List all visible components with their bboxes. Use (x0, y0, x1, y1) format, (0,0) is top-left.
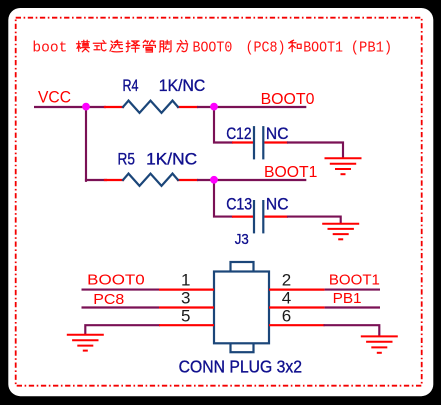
ground (C12) (325, 158, 362, 174)
svg-text:NC: NC (266, 124, 289, 143)
net label BOOT0 (261, 91, 315, 108)
pin number 4 (282, 288, 291, 307)
svg-text:BOOT0: BOOT0 (193, 41, 233, 57)
value NC (C13) (266, 195, 289, 214)
label R5 (118, 149, 135, 168)
resistor R5 (105, 174, 197, 186)
capacitor C13 (232, 200, 288, 233)
net label BOOT1 (connector) (329, 272, 380, 289)
title text: boot 模式选择管脚为BOOT0 (PC8)和BOOT1 (PB1) (32, 41, 392, 57)
label CONN PLUG 3x2 (179, 356, 302, 376)
net label PB1 (333, 290, 362, 307)
ground (C13) (322, 224, 359, 240)
wire junction down to R5 row (85, 107, 87, 181)
connector J3 body (214, 262, 269, 352)
svg-text:NC: NC (266, 195, 289, 214)
wire pin 2 to BOOT1 (325, 289, 380, 291)
wire pin 5 to ground (85, 325, 159, 334)
pin number 2 (282, 271, 291, 290)
value NC (C12) (266, 124, 289, 143)
ground (pin 5) (67, 335, 104, 351)
pin 3 (159, 306, 214, 308)
label C12 (226, 124, 251, 143)
junction node BOOT1 (210, 176, 218, 184)
label R4 (123, 76, 139, 95)
pin 4 (269, 306, 325, 308)
wire VCC to R4 (34, 106, 106, 108)
value 1K/NC (R4) (159, 76, 206, 95)
svg-text:BOOT1: BOOT1 (303, 41, 343, 57)
wire C12 to ground (288, 143, 343, 158)
svg-text:1K/NC: 1K/NC (159, 76, 206, 95)
wire C13 to ground (288, 217, 341, 223)
wire pin 4 to PB1 (325, 306, 380, 308)
pin 5 (159, 324, 214, 326)
svg-text:BOOT0: BOOT0 (87, 271, 145, 288)
svg-text:VCC: VCC (38, 89, 71, 107)
svg-text:1K/NC: 1K/NC (146, 149, 197, 168)
svg-text:boot: boot (32, 41, 67, 57)
junction node VCC/R5 tap (82, 103, 90, 111)
label C13 (226, 195, 252, 214)
capacitor C12 (232, 126, 288, 159)
power port VCC (38, 89, 71, 107)
svg-text:PB1: PB1 (333, 290, 362, 307)
pin number 1 (181, 271, 190, 290)
wire BOOT0 node down to C12 (214, 107, 232, 143)
svg-text:C13: C13 (226, 195, 252, 214)
svg-text:4: 4 (282, 288, 291, 307)
wire PC8 to pin 3 (82, 306, 160, 308)
wire R5 row left (86, 179, 106, 181)
svg-text:1: 1 (181, 271, 190, 290)
pin 1 (159, 289, 214, 291)
title CJK glyphs 模式选择管脚为 (77, 40, 302, 52)
pin 6 (269, 324, 325, 326)
pin number 3 (181, 288, 190, 307)
pin number 5 (181, 306, 190, 325)
svg-text:3: 3 (181, 288, 190, 307)
junction node BOOT0 (210, 103, 218, 111)
ground (pin 6) (361, 336, 398, 352)
wire BOOT0 to pin 1 (82, 289, 160, 291)
svg-text:CONN PLUG 3x2: CONN PLUG 3x2 (179, 356, 302, 376)
svg-text:PC8: PC8 (93, 291, 124, 308)
pin 2 (269, 289, 325, 291)
svg-text:BOOT1: BOOT1 (264, 164, 318, 181)
svg-text:BOOT0: BOOT0 (261, 91, 315, 108)
svg-text:(PB1): (PB1) (351, 41, 392, 57)
pin number 6 (282, 306, 291, 325)
svg-text:J3: J3 (235, 231, 249, 248)
svg-text:C12: C12 (226, 124, 251, 143)
svg-text:(PC8): (PC8) (246, 41, 286, 57)
wire BOOT1 node down to C13 (214, 180, 232, 217)
net label BOOT1 (264, 164, 318, 181)
svg-text:R5: R5 (118, 149, 135, 168)
svg-text:6: 6 (282, 306, 291, 325)
net label PC8 (93, 291, 124, 308)
wire R4 to BOOT0 node (197, 106, 306, 108)
svg-text:2: 2 (282, 271, 291, 290)
label J3 (235, 231, 249, 248)
net label BOOT0 (connector) (87, 271, 145, 288)
wire pin 6 to ground (325, 325, 380, 335)
resistor R4 (105, 101, 197, 113)
wire R5 to BOOT1 node (197, 179, 306, 181)
svg-text:5: 5 (181, 306, 190, 325)
value 1K/NC (R5) (146, 149, 197, 168)
svg-text:R4: R4 (123, 76, 139, 95)
svg-text:BOOT1: BOOT1 (329, 272, 380, 289)
